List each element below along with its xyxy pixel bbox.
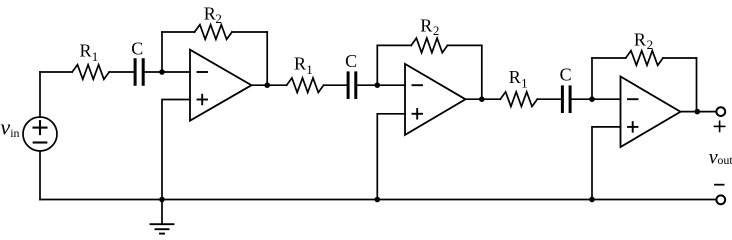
capacitor C stage2 bbox=[348, 73, 356, 98]
label plus terminal bbox=[714, 121, 724, 131]
svg-text:R: R bbox=[509, 67, 521, 87]
resistor R2 stage1 bbox=[195, 25, 233, 40]
svg-text:R: R bbox=[634, 29, 646, 49]
wire U1 output bbox=[252, 84, 287, 86]
wire C to inverting input stage3 bbox=[572, 98, 621, 100]
label C stage1 bbox=[131, 38, 143, 58]
wire source top to R1 bbox=[39, 72, 41, 117]
label R1 stage1 bbox=[80, 41, 99, 64]
svg-text:R: R bbox=[420, 15, 432, 35]
node H stage2 rail junction bbox=[375, 197, 381, 203]
wire non-inverting input stage3 bbox=[592, 127, 621, 200]
wire R1 to C stage2 bbox=[324, 84, 347, 86]
wire feedback left vertical stage2 bbox=[376, 45, 378, 85]
wire feedback right vertical stage1 bbox=[266, 32, 268, 85]
svg-text:out: out bbox=[717, 153, 732, 167]
svg-text:1: 1 bbox=[521, 76, 528, 91]
voltage source Vin bbox=[23, 117, 57, 151]
label vin bbox=[0, 115, 19, 140]
output terminal plus bbox=[716, 107, 725, 116]
svg-text:1: 1 bbox=[306, 62, 313, 77]
label minus terminal bbox=[715, 184, 724, 186]
wire R1 to C stage3 bbox=[537, 98, 561, 100]
label R2 stage1 bbox=[204, 3, 222, 26]
wire feedback left vertical stage3 bbox=[591, 58, 593, 99]
wire U2 output bbox=[466, 98, 501, 100]
resistor R1 stage1 bbox=[72, 65, 109, 80]
node G ground junction bbox=[159, 197, 165, 203]
op-amp U2 bbox=[405, 64, 466, 135]
wire feedback left vertical stage1 bbox=[161, 32, 163, 72]
node A stage1 input junction bbox=[159, 69, 165, 75]
label vout bbox=[709, 147, 732, 169]
wire C to inverting input stage1 bbox=[145, 71, 190, 73]
svg-text:C: C bbox=[131, 38, 143, 58]
wire C to inverting input stage2 bbox=[357, 84, 405, 86]
svg-text:R: R bbox=[204, 3, 216, 23]
wire feedback top-right stage3 bbox=[663, 57, 697, 59]
op-amp U3 bbox=[621, 77, 681, 148]
svg-text:C: C bbox=[345, 51, 357, 71]
svg-text:v: v bbox=[0, 115, 10, 140]
capacitor C stage3 bbox=[562, 87, 570, 112]
resistor R2 stage3 bbox=[626, 51, 663, 66]
wire bottom rail bbox=[40, 199, 716, 201]
svg-text:2: 2 bbox=[215, 11, 222, 26]
svg-text:C: C bbox=[560, 65, 572, 85]
label C stage2 bbox=[345, 51, 357, 71]
wire feedback top-right stage2 bbox=[448, 44, 482, 46]
wire top-left horizontal bbox=[40, 71, 72, 73]
label C stage3 bbox=[560, 65, 572, 85]
label R1 stage2 bbox=[294, 53, 313, 77]
svg-text:in: in bbox=[10, 126, 19, 140]
wire feedback top-left stage1 bbox=[162, 31, 195, 33]
wire source bottom to rail bbox=[39, 151, 41, 200]
wire non-inverting input stage1 bbox=[162, 100, 190, 200]
wire R1 to C stage1 bbox=[109, 71, 133, 73]
label R1 stage3 bbox=[509, 67, 528, 91]
op-amp U1 bbox=[190, 50, 252, 121]
wire feedback right vertical stage3 bbox=[696, 58, 698, 112]
wire non-inverting input stage2 bbox=[377, 114, 405, 200]
output terminal minus bbox=[716, 195, 725, 204]
svg-text:R: R bbox=[294, 53, 306, 73]
svg-text:1: 1 bbox=[92, 49, 99, 64]
node D stage2 output junction bbox=[479, 96, 485, 102]
node I stage3 rail junction bbox=[589, 197, 595, 203]
wire feedback top-left stage3 bbox=[592, 57, 626, 59]
svg-text:R: R bbox=[80, 41, 92, 61]
node C stage2 input junction bbox=[375, 82, 381, 88]
svg-text:2: 2 bbox=[433, 23, 440, 38]
resistor R1 stage2 bbox=[287, 78, 324, 93]
ground bbox=[151, 200, 174, 234]
svg-text:2: 2 bbox=[647, 37, 654, 52]
label R2 stage2 bbox=[420, 15, 439, 37]
wire U3 output bbox=[681, 111, 717, 113]
wire feedback top-left stage2 bbox=[377, 44, 411, 46]
resistor R2 stage2 bbox=[411, 38, 447, 53]
node E stage3 input junction bbox=[589, 96, 595, 102]
capacitor C stage1 bbox=[135, 60, 143, 85]
label R2 stage3 bbox=[634, 29, 653, 52]
resistor R1 stage3 bbox=[500, 92, 537, 107]
wire feedback right vertical stage2 bbox=[481, 45, 483, 99]
wire feedback top-right stage1 bbox=[232, 31, 267, 33]
node F stage3 output junction bbox=[695, 109, 701, 115]
node B stage1 output junction bbox=[264, 82, 270, 88]
